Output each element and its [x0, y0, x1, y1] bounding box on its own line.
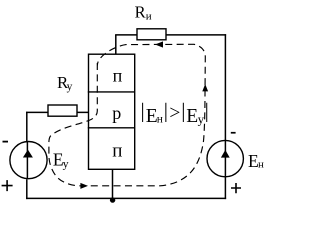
minus terminal of Ен: [231, 132, 236, 134]
svg-text:R: R: [135, 3, 146, 22]
transistor body (п-р-п box): [89, 54, 135, 169]
wire: through Еу: [26, 142, 28, 180]
svg-text:у: у: [63, 156, 69, 170]
arrow on top dashed segment (points left): [155, 41, 163, 47]
svg-text:у: у: [198, 111, 205, 126]
wire: through Ен: [224, 141, 226, 178]
svg-text:н: н: [157, 113, 163, 125]
svg-text:п: п: [112, 141, 122, 162]
svg-text:п: п: [113, 66, 123, 86]
wire: top rail: [115, 34, 226, 36]
svg-text:и: и: [146, 10, 152, 22]
wire: collector lead down to transistor box: [115, 35, 117, 54]
svg-text:|: |: [181, 99, 185, 123]
arrow inside Ен: [221, 150, 230, 158]
svg-text:|: |: [164, 99, 168, 123]
wire: left rail lower: [26, 179, 28, 199]
wire: right rail upper: [224, 34, 226, 141]
junction dot: [110, 197, 115, 202]
arrow on bottom dashed segment (points right): [80, 183, 88, 189]
arrow inside Еу: [23, 150, 33, 158]
resistor R2 (Rу) body: [48, 105, 77, 116]
plus terminal of Еу: [2, 180, 13, 191]
svg-text:E: E: [186, 106, 198, 127]
svg-text:р: р: [112, 103, 121, 123]
minus terminal of Еу: [3, 141, 9, 143]
divider р/п: [88, 127, 135, 129]
wire: emitter lead from box down to bottom rail: [112, 169, 114, 198]
wire: left rail upper: [26, 112, 28, 142]
wire: right rail lower: [224, 178, 226, 200]
svg-text:>: >: [169, 103, 180, 124]
resistor R1 (Rи) body: [137, 29, 166, 40]
wire: dashed current loop: [49, 44, 205, 186]
divider п/р: [88, 91, 135, 93]
svg-text:у: у: [67, 81, 73, 93]
plus terminal of Ен: [231, 183, 241, 193]
inequality text |Ен| > |Еу|: [141, 99, 209, 127]
source E2 (Ен) circle: [207, 140, 243, 176]
arrow on right dashed segment (points up): [202, 84, 208, 91]
svg-text:н: н: [258, 158, 264, 170]
source E1 (Еу) circle: [10, 142, 47, 179]
svg-text:|: |: [141, 99, 145, 123]
wire: bottom rail: [26, 197, 226, 199]
wire: base lead to transistor: [26, 111, 89, 113]
